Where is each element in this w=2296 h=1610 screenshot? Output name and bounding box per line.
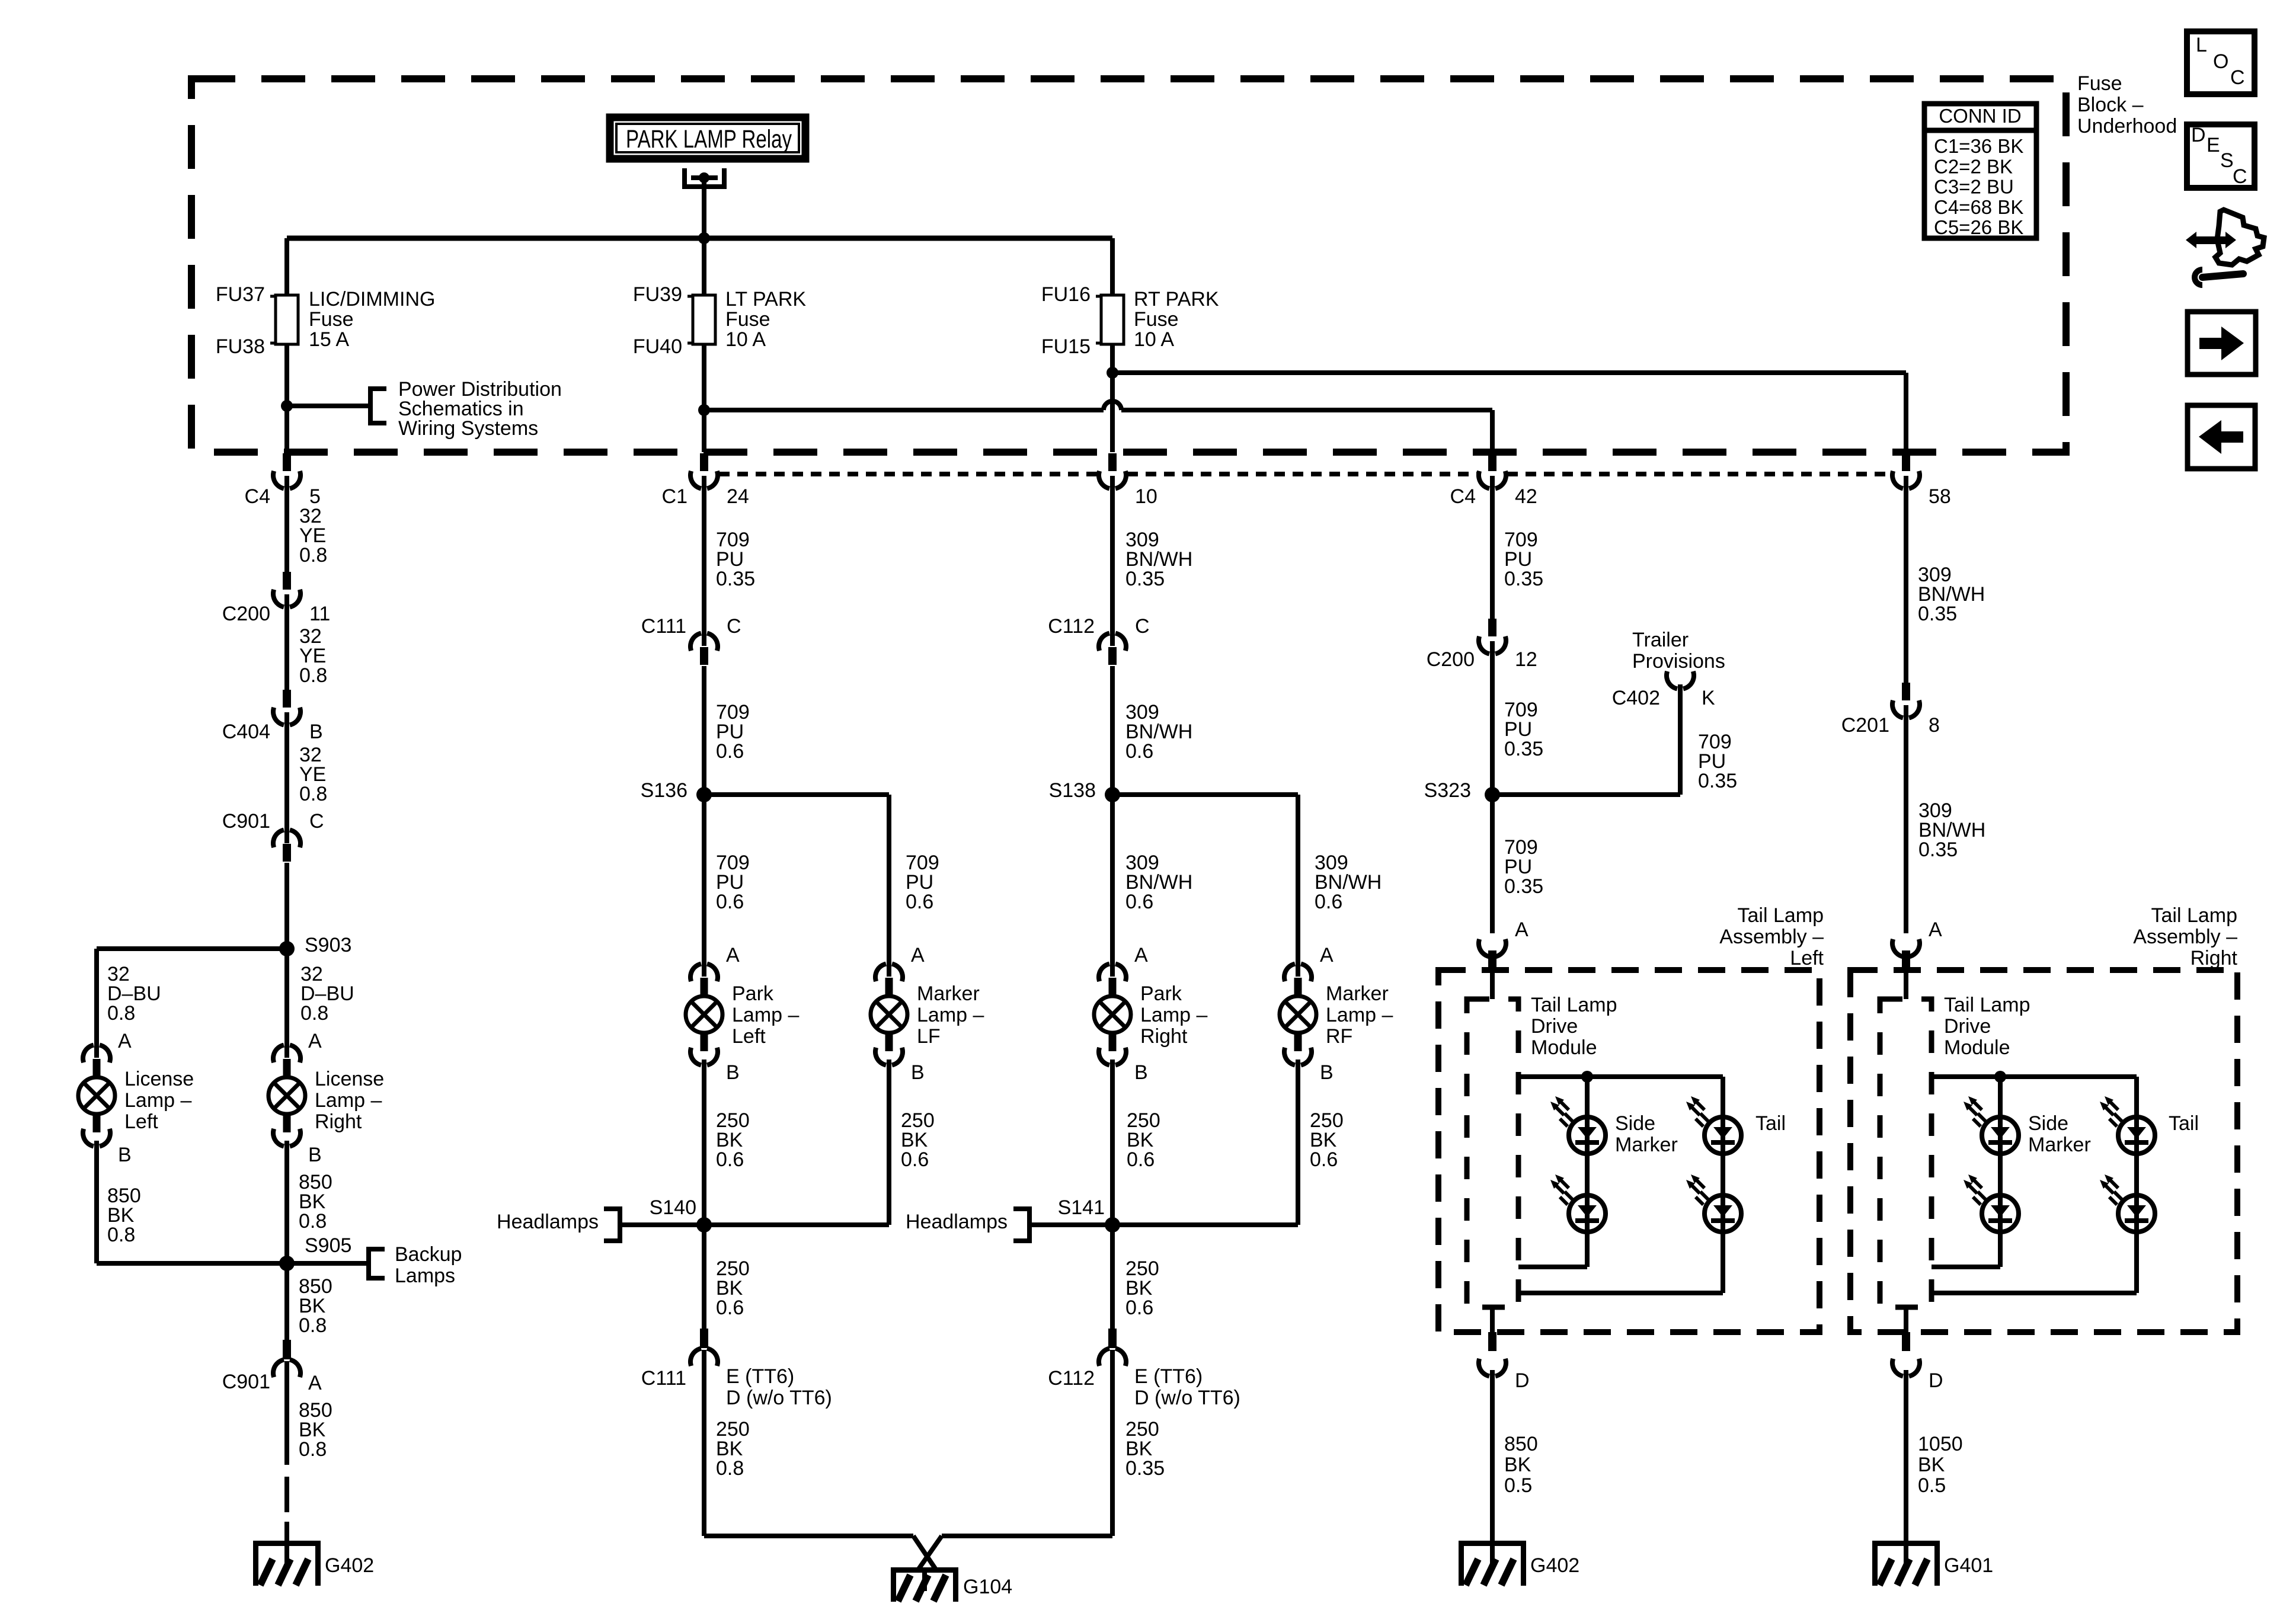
label pin 5 xyxy=(309,485,321,508)
svg-text:C5=26 BK: C5=26 BK xyxy=(1934,216,2023,238)
svg-text:S903: S903 xyxy=(305,934,351,956)
label 32 YE 0.8 #1 xyxy=(299,505,327,566)
label 250 BK 0.6 marker LF xyxy=(901,1109,935,1171)
svg-text:0.6: 0.6 xyxy=(716,891,744,913)
svg-text:0.35: 0.35 xyxy=(1918,603,1957,625)
svg-text:0.6: 0.6 xyxy=(716,740,744,763)
svg-text:C200: C200 xyxy=(1427,648,1475,671)
svg-text:0.8: 0.8 xyxy=(299,1314,327,1337)
connector C112 pin C xyxy=(1099,633,1126,665)
svg-text:C: C xyxy=(2230,66,2245,89)
svg-text:Marker: Marker xyxy=(917,982,980,1005)
wire S141 down xyxy=(1110,1225,1115,1329)
label C111 bottom xyxy=(641,1367,686,1390)
label FU38 xyxy=(216,335,265,358)
svg-text:License: License xyxy=(315,1068,384,1090)
svg-text:S136: S136 xyxy=(641,779,687,802)
svg-text:Tail Lamp: Tail Lamp xyxy=(2151,904,2237,927)
svg-text:A: A xyxy=(911,944,925,966)
wire C201 to tail right xyxy=(1904,705,1908,933)
svg-text:0.35: 0.35 xyxy=(1504,568,1543,590)
label Side Marker left xyxy=(1615,1112,1678,1156)
fuse FU16/FU15 RT PARK xyxy=(1096,295,1124,344)
svg-text:Lamp –: Lamp – xyxy=(1326,1004,1393,1026)
splice S903 xyxy=(279,941,295,956)
svg-text:0.6: 0.6 xyxy=(1125,1297,1153,1319)
label 850 BK 0.8 right xyxy=(299,1171,332,1233)
icon arrow right box xyxy=(2188,312,2256,375)
svg-text:Headlamps: Headlamps xyxy=(906,1211,1008,1233)
svg-text:K: K xyxy=(1702,687,1715,709)
wire 58 line drop xyxy=(1904,373,1908,452)
svg-text:0.8: 0.8 xyxy=(107,1224,135,1246)
label 709 PU 0.6 park xyxy=(716,852,750,913)
svg-text:C4: C4 xyxy=(1450,485,1476,508)
tail lamp drive module left dashed box xyxy=(1467,999,1518,1307)
label pin D (w/o TT6) right xyxy=(1134,1387,1240,1409)
label pin D left xyxy=(1515,1369,1530,1392)
svg-text:Right: Right xyxy=(1140,1025,1188,1048)
junction dot LT PARK xyxy=(698,404,710,416)
label FU40 xyxy=(633,335,682,358)
svg-text:Fuse: Fuse xyxy=(309,308,354,331)
wire C112 to G104 xyxy=(1110,1350,1115,1536)
label pin B license right xyxy=(308,1144,322,1166)
wire module exit right xyxy=(1904,1307,1908,1332)
wire 692 line right segment xyxy=(1121,408,1492,412)
svg-text:Tail: Tail xyxy=(2169,1112,2199,1135)
dotted harness line xyxy=(719,472,1891,476)
svg-text:B: B xyxy=(118,1144,132,1166)
label pin B xyxy=(309,721,323,743)
ground G402 left xyxy=(253,1541,321,1586)
label pin B marker LF xyxy=(911,1061,925,1084)
svg-text:C901: C901 xyxy=(222,810,270,833)
wire license left to S905 line xyxy=(97,1141,287,1263)
wire marker LF to S140 line xyxy=(887,1060,891,1225)
label pin B park right xyxy=(1134,1061,1148,1084)
connector fuse block pin 58 xyxy=(1892,453,1920,488)
bus wire from relay xyxy=(287,236,1112,241)
label Trailer Provisions xyxy=(1632,629,1725,673)
svg-text:Fuse: Fuse xyxy=(1134,308,1179,331)
backup lamps bracket xyxy=(369,1247,385,1281)
wire FU16 feed xyxy=(1110,238,1115,295)
label pin 42 xyxy=(1515,485,1537,508)
svg-text:O: O xyxy=(2213,50,2228,73)
svg-text:A: A xyxy=(118,1030,132,1052)
svg-text:Module: Module xyxy=(1944,1036,2010,1059)
label S140 xyxy=(650,1196,696,1219)
label LIC/DIMMING Fuse 15 A xyxy=(309,288,435,351)
label pin 10 xyxy=(1135,485,1157,508)
label 709 PU 0.35 #1 xyxy=(716,529,755,590)
svg-text:G104: G104 xyxy=(963,1576,1012,1598)
svg-text:C111: C111 xyxy=(641,615,686,638)
label G402 right xyxy=(1530,1554,1579,1577)
svg-text:FU40: FU40 xyxy=(633,335,682,358)
tail lamp assembly right dashed box xyxy=(1850,970,2237,1332)
led side marker right 1 xyxy=(1964,1096,2019,1154)
wire 692 line left segment xyxy=(704,408,1104,412)
label 709 PU 0.6 marker xyxy=(906,852,939,913)
wire 692 line drop xyxy=(1490,410,1495,452)
label S905 xyxy=(305,1234,351,1257)
svg-text:0.35: 0.35 xyxy=(1698,770,1737,792)
label C901 xyxy=(222,810,270,833)
wire S323 branch to C402 xyxy=(1492,684,1680,795)
label 32 YE 0.8 #3 xyxy=(299,744,327,805)
connector C4 pin 42 xyxy=(1479,453,1506,488)
svg-text:0.6: 0.6 xyxy=(1315,891,1342,913)
svg-text:C200: C200 xyxy=(222,603,270,625)
svg-text:Underhood: Underhood xyxy=(2077,115,2177,137)
connector tail lamp right pin A xyxy=(1892,939,1920,969)
svg-text:Lamp –: Lamp – xyxy=(732,1004,799,1026)
label pin A park right xyxy=(1134,944,1148,966)
connector C200 pin 11 xyxy=(273,572,300,607)
wire tail branch left xyxy=(1518,1077,1723,1293)
wire 709 PU 0.35 (C1 to C111) xyxy=(702,476,706,646)
svg-text:D: D xyxy=(1515,1369,1530,1392)
wire tail branch right xyxy=(1932,1077,2137,1293)
label pin A park left xyxy=(726,944,740,966)
wire 32 YE 0.8 (C4-5 to C200) xyxy=(284,476,289,572)
svg-text:Left: Left xyxy=(1790,947,1824,969)
label 850 BK 0.5 xyxy=(1504,1433,1538,1497)
wire G104 right horizontal xyxy=(942,1534,1112,1538)
svg-text:FU16: FU16 xyxy=(1041,283,1091,306)
label License Lamp - Right xyxy=(315,1068,384,1133)
wire S903 to right license lamp xyxy=(284,949,289,1058)
label pin C (C112) xyxy=(1135,615,1150,638)
svg-text:Marker: Marker xyxy=(2028,1134,2091,1156)
power distribution bracket xyxy=(370,386,386,425)
icon LOC box xyxy=(2187,31,2255,94)
svg-text:C901: C901 xyxy=(222,1371,270,1393)
label LT PARK Fuse 10 A xyxy=(725,288,806,351)
svg-text:A: A xyxy=(1929,918,1942,941)
label pin B license left xyxy=(118,1144,132,1166)
label Park Lamp - Left xyxy=(732,982,799,1048)
svg-text:0.6: 0.6 xyxy=(716,1297,744,1319)
label 850 BK 0.8 left xyxy=(107,1185,141,1246)
svg-text:0.6: 0.6 xyxy=(901,1148,929,1171)
svg-text:C1=36 BK: C1=36 BK xyxy=(1934,135,2023,157)
svg-text:License: License xyxy=(124,1068,194,1090)
ground G104 xyxy=(891,1567,958,1602)
junction dot rail left xyxy=(1581,1071,1593,1083)
led tail right 1 xyxy=(2100,1096,2155,1154)
icon vehicle with arrow and wrench xyxy=(2186,210,2264,285)
wire S905 down xyxy=(284,1263,289,1340)
label Tail Lamp Drive Module right xyxy=(1944,994,2030,1059)
wire dashed to G402 xyxy=(284,1477,289,1541)
svg-text:Lamp –: Lamp – xyxy=(1140,1004,1207,1026)
svg-text:LF: LF xyxy=(917,1025,941,1048)
label pin D (w/o TT6) xyxy=(726,1387,832,1409)
label Power Distribution Schematics in Wiring Systems xyxy=(398,378,562,440)
svg-text:0.35: 0.35 xyxy=(1125,568,1165,590)
wire 309 BN/WH 0.6 (C112 to S138) xyxy=(1110,666,1115,795)
label Tail left xyxy=(1755,1112,1786,1135)
label License Lamp - Left xyxy=(124,1068,194,1133)
wire G104 left horizontal xyxy=(704,1534,913,1538)
svg-text:0.6: 0.6 xyxy=(1125,740,1153,763)
svg-text:B: B xyxy=(1320,1061,1334,1084)
label pin A license left xyxy=(118,1030,132,1052)
svg-text:Drive: Drive xyxy=(1531,1015,1578,1038)
label 709 PU 0.6 #1 xyxy=(716,701,750,763)
svg-text:FU39: FU39 xyxy=(633,283,682,306)
svg-text:15 A: 15 A xyxy=(309,328,349,351)
svg-text:0.8: 0.8 xyxy=(299,664,327,687)
bus junction dot xyxy=(698,232,710,244)
svg-text:Side: Side xyxy=(2028,1112,2068,1135)
ground G402 right xyxy=(1459,1541,1526,1586)
label pin C xyxy=(309,810,324,833)
svg-text:Right: Right xyxy=(315,1110,362,1133)
svg-text:0.6: 0.6 xyxy=(1310,1148,1338,1171)
junction dot rail right xyxy=(1994,1071,2006,1083)
svg-text:Assembly –: Assembly – xyxy=(1719,926,1824,948)
wire side marker branch right xyxy=(1932,1077,2000,1267)
wire S140 down xyxy=(702,1225,706,1329)
svg-text:58: 58 xyxy=(1929,485,1951,508)
label C112 xyxy=(1048,615,1095,638)
splice S323 xyxy=(1485,787,1500,802)
svg-text:0.8: 0.8 xyxy=(299,1438,327,1461)
label Headlamps left xyxy=(497,1211,599,1233)
svg-text:0.5: 0.5 xyxy=(1504,1474,1532,1497)
label FU16 xyxy=(1041,283,1091,306)
svg-text:B: B xyxy=(309,721,323,743)
wire led rail left xyxy=(1518,1074,1723,1079)
connector C402 pin K xyxy=(1667,671,1694,689)
svg-text:C3=2 BU: C3=2 BU xyxy=(1934,176,2014,198)
wire hop over RT PARK wire xyxy=(1104,401,1121,410)
svg-text:C404: C404 xyxy=(222,721,270,743)
svg-text:A: A xyxy=(726,944,740,966)
svg-text:A: A xyxy=(308,1372,322,1394)
label C112 bottom xyxy=(1048,1367,1095,1390)
label G402 left xyxy=(325,1554,374,1577)
led tail right 2 xyxy=(2100,1174,2155,1232)
connector C1 pin 24 xyxy=(690,453,718,488)
led tail left 1 xyxy=(1686,1096,1741,1154)
label C200 12 xyxy=(1427,648,1475,671)
svg-text:B: B xyxy=(1134,1061,1148,1084)
label 309 BN/WH 0.35 #2 xyxy=(1918,564,1985,625)
svg-text:LT PARK: LT PARK xyxy=(725,288,806,311)
ground G401 xyxy=(1872,1541,1940,1586)
label Marker Lamp - LF xyxy=(917,982,984,1048)
lamp Park Lamp - Left xyxy=(686,964,722,1065)
wire park left to S140 xyxy=(702,1060,706,1225)
wire license right to S905 xyxy=(284,1141,289,1263)
svg-text:G402: G402 xyxy=(325,1554,374,1577)
svg-text:0.35: 0.35 xyxy=(716,568,755,590)
label 32 D-BU 0.8 right xyxy=(300,963,354,1025)
svg-text:C: C xyxy=(2233,165,2247,188)
label 250 BK 0.6 marker RF xyxy=(1310,1109,1344,1171)
svg-text:FU37: FU37 xyxy=(216,283,265,306)
splice S138 xyxy=(1105,787,1120,802)
label pin K xyxy=(1702,687,1715,709)
label C4 xyxy=(245,485,270,508)
connector C4 pin 5 xyxy=(273,453,300,488)
svg-text:S: S xyxy=(2220,149,2234,172)
connector C901 pin A xyxy=(273,1340,300,1377)
label 709 PU 0.35 #3 xyxy=(1504,699,1543,760)
svg-text:S323: S323 xyxy=(1424,779,1471,802)
wire led rail right xyxy=(1932,1074,2137,1079)
connector C901 pin C xyxy=(273,830,300,862)
svg-text:Tail: Tail xyxy=(1755,1112,1786,1135)
label pin B marker RF xyxy=(1320,1061,1334,1084)
wire marker RF to S141 line xyxy=(1296,1060,1300,1225)
svg-text:Fuse: Fuse xyxy=(725,308,770,331)
label Park Lamp - Right xyxy=(1140,982,1207,1048)
svg-text:Tail Lamp: Tail Lamp xyxy=(1944,994,2030,1016)
label Tail Lamp Assembly - Right xyxy=(2133,904,2237,969)
svg-text:8: 8 xyxy=(1929,714,1940,737)
label 850 BK 0.8 above G402 xyxy=(299,1399,332,1461)
svg-text:850: 850 xyxy=(1504,1433,1538,1455)
svg-text:RT PARK: RT PARK xyxy=(1134,288,1219,311)
wire into module right xyxy=(1904,970,1908,999)
svg-text:C: C xyxy=(727,615,741,638)
svg-text:0.6: 0.6 xyxy=(716,1148,744,1171)
label C402 xyxy=(1612,687,1660,709)
svg-text:0.6: 0.6 xyxy=(906,891,933,913)
label S323 xyxy=(1424,779,1471,802)
label S136 xyxy=(641,779,687,802)
label 32 D-BU 0.8 left xyxy=(107,963,161,1025)
wire to G402 right xyxy=(1490,1370,1495,1541)
wire C901A down xyxy=(284,1361,289,1465)
svg-text:0.8: 0.8 xyxy=(299,544,327,566)
svg-text:FU38: FU38 xyxy=(216,335,265,358)
svg-text:Tail Lamp: Tail Lamp xyxy=(1531,994,1617,1016)
svg-text:G401: G401 xyxy=(1944,1554,1993,1577)
led side marker left 1 xyxy=(1550,1096,1606,1154)
svg-text:Right: Right xyxy=(2191,947,2238,969)
label S141 xyxy=(1058,1196,1105,1219)
label 250 BK 0.6 below S140 xyxy=(716,1257,750,1319)
label pin A marker RF xyxy=(1320,944,1334,966)
label pin 24 xyxy=(727,485,749,508)
label pin A license right xyxy=(308,1030,322,1052)
svg-text:Fuse: Fuse xyxy=(2077,72,2122,95)
label Marker Lamp - RF xyxy=(1326,982,1393,1048)
label pin A xyxy=(308,1372,322,1394)
svg-text:D: D xyxy=(2191,124,2206,146)
wire 709 PU 0.6 (C111 to S136) xyxy=(702,666,706,795)
svg-text:C4=68 BK: C4=68 BK xyxy=(1934,196,2023,218)
svg-text:0.8: 0.8 xyxy=(107,1002,135,1025)
label 250 BK 0.8 xyxy=(716,1418,750,1480)
svg-text:E (TT6): E (TT6) xyxy=(1134,1365,1203,1388)
svg-text:C201: C201 xyxy=(1841,714,1889,737)
svg-text:S140: S140 xyxy=(650,1196,696,1219)
label pin E (TT6) right xyxy=(1134,1365,1203,1388)
label pin A tail left xyxy=(1515,918,1528,941)
svg-text:C111: C111 xyxy=(641,1367,686,1390)
wire 32 YE 0.8 (C404 to C901) xyxy=(284,712,289,843)
lamp License Lamp - Right xyxy=(268,1045,305,1147)
label 309 BN/WH 0.35 #1 xyxy=(1125,529,1192,590)
label pin A tail right xyxy=(1929,918,1942,941)
headlamps bracket right xyxy=(1013,1206,1029,1243)
label 250 BK 0.6 park right xyxy=(1127,1109,1160,1171)
svg-text:42: 42 xyxy=(1515,485,1537,508)
label S903 xyxy=(305,934,351,956)
svg-text:B: B xyxy=(911,1061,925,1084)
wire 309 BN/WH 0.35 (10 to C112) xyxy=(1110,476,1115,646)
svg-text:0.8: 0.8 xyxy=(300,1002,328,1025)
label Tail Lamp Assembly - Left xyxy=(1719,904,1824,969)
svg-text:0.5: 0.5 xyxy=(1918,1474,1946,1497)
label 309 BN/WH 0.6 marker xyxy=(1315,852,1382,913)
svg-text:Assembly –: Assembly – xyxy=(2133,926,2237,948)
svg-text:11: 11 xyxy=(309,603,330,625)
svg-text:E (TT6): E (TT6) xyxy=(726,1365,794,1388)
connector C111 pin C xyxy=(690,633,718,665)
connector C201 pin 8 xyxy=(1892,683,1920,718)
svg-text:PARK LAMP Relay: PARK LAMP Relay xyxy=(626,125,792,153)
wire C200-12 to S323 xyxy=(1490,641,1495,795)
svg-text:12: 12 xyxy=(1515,648,1537,671)
svg-text:LIC/DIMMING: LIC/DIMMING xyxy=(309,288,435,311)
svg-text:Left: Left xyxy=(732,1025,766,1048)
svg-text:Lamp –: Lamp – xyxy=(917,1004,984,1026)
wire 309 BN/WH 0.35 (58 to C201) xyxy=(1904,476,1908,683)
wire C111 to G104 xyxy=(702,1350,706,1536)
svg-text:0.8: 0.8 xyxy=(716,1457,744,1480)
svg-text:S905: S905 xyxy=(305,1234,351,1257)
svg-text:A: A xyxy=(1515,918,1528,941)
label 850 BK 0.8 below S905 xyxy=(299,1275,332,1337)
connector tail right pin D xyxy=(1892,1332,1920,1376)
tail lamp drive module right dashed box xyxy=(1880,999,1932,1307)
label pin 11 xyxy=(309,603,330,625)
label C1 xyxy=(662,485,687,508)
label Backup Lamps xyxy=(395,1243,462,1287)
svg-text:C1: C1 xyxy=(662,485,687,508)
svg-text:BK: BK xyxy=(1504,1454,1531,1476)
wire below FU40 xyxy=(702,344,706,452)
wire below FU38 xyxy=(284,344,289,452)
svg-text:Park: Park xyxy=(732,982,774,1005)
label pin D right xyxy=(1929,1369,1943,1392)
conn id table xyxy=(1922,104,2039,238)
label pin 8 xyxy=(1929,714,1940,737)
svg-text:FU15: FU15 xyxy=(1041,335,1091,358)
wire FU37 feed xyxy=(284,238,289,295)
wire module exit left xyxy=(1490,1307,1495,1332)
label pin 12 xyxy=(1515,648,1537,671)
tail lamp assembly left dashed box xyxy=(1438,970,1819,1332)
connector C200 pin 12 xyxy=(1479,619,1506,654)
lamp Marker Lamp - RF xyxy=(1280,964,1316,1065)
fuse block label xyxy=(2077,72,2177,137)
connector C404 pin B xyxy=(273,690,300,725)
label pin 58 xyxy=(1929,485,1951,508)
label Side Marker right xyxy=(2028,1112,2091,1156)
svg-text:A: A xyxy=(1320,944,1334,966)
wire S138 branch to marker RF xyxy=(1112,795,1298,977)
